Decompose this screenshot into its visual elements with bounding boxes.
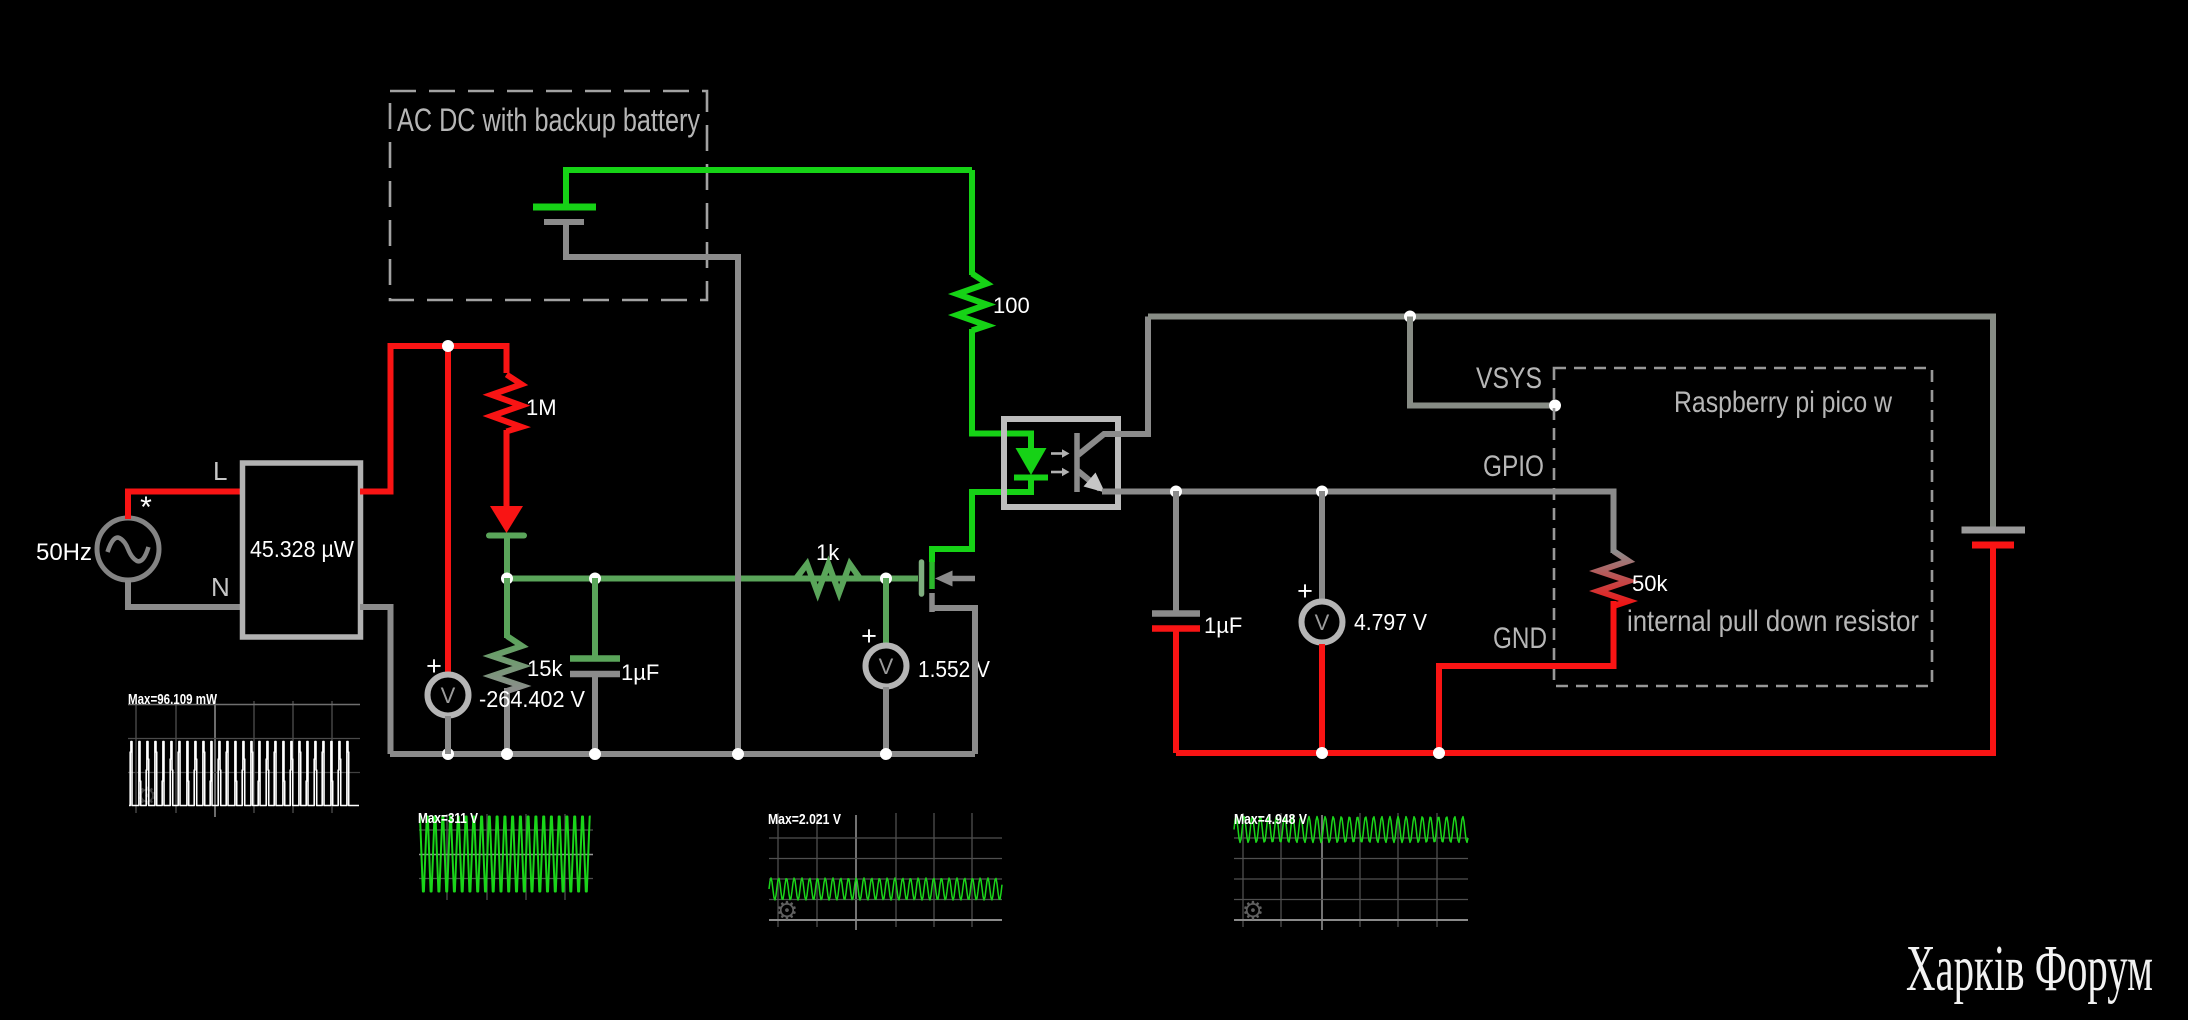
scope 1 grid verticals (136, 701, 332, 813)
svg-text:1.552 V: 1.552 V (918, 656, 991, 682)
scope 3 grid horizontals (769, 838, 1002, 900)
svg-text:1µF: 1µF (621, 660, 659, 685)
svg-text:1M: 1M (526, 395, 557, 420)
scope 4 grid bottom line (1234, 919, 1468, 921)
svg-text:1µF: 1µF (1204, 613, 1242, 638)
node red rail V3 (1316, 747, 1328, 759)
phototransistor emitter arrow (1084, 473, 1106, 493)
battery B2 bottom plate (1972, 542, 2014, 549)
MOSFET Q1 drain wire green (932, 478, 1031, 562)
svg-text:Max=4.948 V: Max=4.948 V (1234, 811, 1307, 828)
top bus gray (1148, 317, 1993, 527)
wire N gray from source to module (128, 580, 242, 607)
voltmeter V2 circle (866, 646, 907, 687)
wire resistor 1M to diode red (504, 430, 510, 508)
svg-text:+: + (1297, 576, 1313, 606)
wire green battery bus down to 100 (969, 170, 975, 275)
node green junction at cap (589, 573, 601, 585)
scope 3 grid verticals (778, 813, 972, 927)
capacitor C1 top plate (570, 655, 620, 662)
wire 15k to rail gray (504, 688, 510, 754)
node red rail GND (1433, 747, 1445, 759)
wire 100 to optocoupler LED (972, 329, 1031, 450)
node rail battery return (732, 748, 744, 760)
MOSFET Q1 gate bar (919, 562, 925, 594)
wire capacitor C2 to red rail (1173, 630, 1179, 753)
svg-text:L: L (213, 456, 227, 486)
svg-text:4.797 V: 4.797 V (1354, 609, 1428, 635)
scope 4 grid verticals (1243, 813, 1437, 927)
wire green to voltmeter V2 (883, 578, 889, 645)
node rail C1 (589, 748, 601, 760)
phototransistor collector lead (1078, 317, 1148, 456)
optocoupler LED cathode bar (1014, 475, 1048, 481)
scope 3 trace 2.021V (769, 878, 1002, 900)
node rail V1 (442, 748, 454, 760)
node VSYS pin (1549, 400, 1561, 412)
svg-text:N: N (211, 572, 230, 602)
node GPIO cap junction (1170, 486, 1182, 498)
light arrow 2 (1051, 471, 1062, 474)
phototransistor base bar (1074, 433, 1080, 492)
wire voltmeter V2 to rail gray (883, 687, 889, 754)
battery B1 negative plate (544, 219, 584, 225)
scope 1 grid center vertical (214, 701, 216, 817)
scope 3 grid bottom line (769, 919, 1002, 921)
resistor 1k (796, 564, 860, 593)
light arrow 1 (1051, 452, 1062, 455)
node red top junction (442, 340, 454, 352)
bottom rail gray (390, 751, 975, 757)
wire module return gray (360, 607, 391, 754)
wire battery positive green (566, 170, 972, 204)
MOSFET Q1 channel drain side (929, 560, 935, 589)
svg-text:V: V (441, 683, 456, 708)
optocoupler LED triangle (1016, 448, 1047, 475)
wire module output red (360, 346, 507, 492)
battery B2 top plate (1962, 527, 2026, 534)
wire green bus to 15k (504, 578, 510, 638)
voltmeter V1 circle (428, 675, 469, 716)
svg-text:GPIO: GPIO (1483, 450, 1544, 483)
resistor 50k internal pull down (1599, 551, 1629, 606)
scope 4 grid horizontals (1234, 838, 1468, 900)
svg-text:*: * (140, 491, 152, 524)
svg-text:Max=96.109 mW: Max=96.109 mW (128, 691, 218, 708)
wire voltmeter V3 to red rail (1319, 644, 1325, 753)
svg-text:AC DC with backup battery: AC DC with backup battery (397, 102, 700, 138)
wire green to capacitor C1 (592, 578, 598, 656)
svg-text:-264.402 V: -264.402 V (479, 686, 586, 712)
scope 4 trace 4.948V (1234, 817, 1468, 843)
node green junction at voltmeter V2 (880, 573, 892, 585)
scope 1 grid horizontals (128, 704, 360, 706)
svg-text:GND: GND (1493, 622, 1547, 655)
node green junction at diode (501, 573, 513, 585)
wire red riser to voltmeter V1 (445, 346, 451, 673)
MOSFET Q1 source wire (930, 608, 975, 754)
svg-text:V: V (879, 654, 894, 679)
scope 2 trace 311V (419, 817, 591, 892)
svg-text:Харків Форум: Харків Форум (1906, 932, 2153, 1005)
wire voltmeter V1 to rail (445, 716, 451, 754)
optocoupler U1 box (1004, 419, 1118, 507)
wire LED cathode green (1028, 477, 1034, 492)
svg-text:100: 100 (993, 293, 1030, 318)
node rail 15k (501, 748, 513, 760)
scope 2 grid center line (419, 854, 593, 856)
wire green bus horizontal (507, 576, 918, 582)
scope 1 trace power (129, 742, 359, 806)
svg-text:Raspberry pi pico w: Raspberry pi pico w (1674, 386, 1892, 419)
svg-text:⚙: ⚙ (1242, 897, 1264, 925)
wire GPIO bus gray (1102, 492, 1614, 554)
power module box (243, 463, 361, 637)
svg-text:45.328 µW: 45.328 µW (250, 536, 354, 562)
resistor 1M (492, 375, 522, 432)
svg-text:Max=311 V: Max=311 V (418, 810, 478, 827)
wire battery negative gray (566, 225, 738, 754)
svg-text:+: + (426, 651, 442, 681)
node top bus VSYS branch (1404, 311, 1416, 323)
svg-text:VSYS: VSYS (1476, 362, 1542, 395)
AC source V1 50Hz circle (97, 518, 159, 580)
capacitor C2 top plate (1152, 610, 1200, 617)
svg-text:⚙: ⚙ (776, 897, 798, 925)
resistor 100 (957, 274, 987, 331)
svg-text:V: V (1315, 610, 1330, 635)
scope 3 grid center vertical (855, 815, 857, 930)
phototransistor emitter lead (1078, 471, 1100, 489)
MOSFET Q1 body wire (950, 576, 975, 582)
MOSFET Q1 channel source side (929, 593, 935, 612)
node GPIO voltmeter junction (1316, 486, 1328, 498)
svg-text:internal pull down resistor: internal pull down resistor (1627, 605, 1919, 638)
svg-text:1k: 1k (816, 540, 840, 565)
MOSFET Q1 body arrow (935, 571, 953, 587)
wire backup battery return crossing (735, 257, 741, 754)
wire diode to green bus (504, 536, 510, 578)
wire capacitor C1 to rail (592, 676, 598, 754)
diode D1 anode triangle (490, 506, 523, 533)
dashed box Raspberry pi pico w (1554, 368, 1932, 686)
wire GPIO to capacitor C2 (1173, 491, 1179, 611)
capacitor C2 bottom plate (1152, 625, 1200, 632)
resistor 15k (492, 636, 522, 691)
svg-text:+: + (861, 621, 877, 651)
AC source sine symbol (108, 538, 149, 562)
scope 2 grid (419, 814, 593, 900)
dashed box AC DC with backup battery (390, 91, 707, 300)
battery B1 positive plate (533, 204, 596, 211)
svg-text:50Hz: 50Hz (36, 539, 92, 566)
capacitor C1 bottom plate (570, 671, 620, 678)
wire VSYS branch (1410, 317, 1555, 406)
red rail bottom (1176, 548, 1993, 753)
svg-text:Max=2.021 V: Max=2.021 V (768, 811, 841, 828)
diode D1 cathode bar (489, 533, 524, 539)
voltmeter V3 circle (1302, 602, 1343, 643)
wire GPIO to voltmeter V3 (1319, 491, 1325, 600)
node rail V2 (880, 748, 892, 760)
scope 4 grid center vertical (1321, 815, 1323, 930)
svg-text:50k: 50k (1632, 571, 1668, 596)
wire GND red path (1439, 601, 1614, 753)
wire L red from source to module (128, 492, 242, 520)
svg-text:15k: 15k (527, 656, 563, 681)
